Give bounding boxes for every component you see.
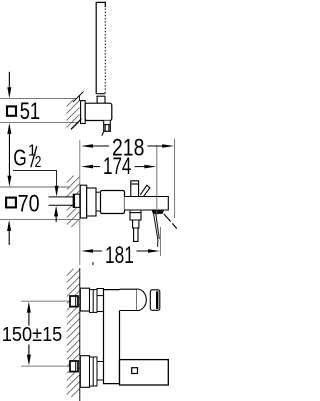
wall line (middle) bbox=[79, 140, 81, 265]
lower connection square bbox=[70, 361, 78, 372]
arrow up bbox=[27, 302, 31, 326]
dimension 181 bbox=[81, 242, 160, 269]
wall break slash at plate bottom bbox=[71, 119, 82, 130]
svg-text:51: 51 bbox=[20, 98, 40, 125]
outlet box below body bbox=[130, 211, 141, 242]
main block (front) bbox=[104, 290, 120, 384]
svg-text:174: 174 bbox=[103, 153, 131, 180]
extension line for 218 bbox=[174, 139, 176, 219]
arrow down to pipe top line bbox=[55, 186, 59, 197]
upper connection axis line bbox=[21, 300, 70, 302]
holder wall plate bbox=[81, 101, 86, 124]
small tick bbox=[92, 262, 94, 265]
mixer escutcheon (side) bbox=[80, 185, 86, 218]
spout tube bbox=[125, 197, 169, 211]
reference line bottom of mixer escutcheon bbox=[0, 219, 79, 221]
supply pipe behind wall bbox=[49, 197, 74, 204]
wall line (bottom) bbox=[79, 268, 81, 401]
arrow down bbox=[27, 345, 31, 366]
main block (side) bbox=[101, 191, 125, 214]
upper connection square bbox=[70, 296, 78, 307]
square symbol 70 bbox=[6, 198, 16, 208]
water stream dashes diagonal bbox=[164, 214, 177, 229]
wall break slash top bbox=[73, 92, 84, 103]
aerator square bbox=[132, 368, 138, 374]
pipe nut at wall bbox=[73, 194, 80, 207]
upper escutcheon bbox=[80, 288, 89, 311]
svg-text:2: 2 bbox=[35, 154, 42, 171]
wall hatching (bottom) bbox=[67, 269, 80, 398]
reference line top of holder plate bbox=[0, 98, 77, 100]
upper connector bbox=[97, 289, 104, 312]
square symbol 51 bbox=[7, 106, 16, 115]
dimension 218 bbox=[81, 134, 174, 161]
mixer body (side) bbox=[87, 188, 96, 216]
arrow up to pipe bottom line + shaft bbox=[54, 206, 58, 222]
svg-text:G: G bbox=[13, 145, 27, 171]
wall line (top section) bbox=[79, 95, 81, 101]
neck (side) bbox=[96, 192, 101, 211]
lever (diagonal, side) bbox=[140, 185, 150, 196]
lower body band bbox=[90, 357, 98, 386]
lever arm (front) bbox=[120, 289, 147, 311]
hand shower handle body bbox=[96, 2, 105, 94]
water stream lines bbox=[154, 214, 160, 247]
lower connection axis line bbox=[21, 365, 70, 367]
holder hose stem bbox=[104, 121, 111, 132]
arrow down to line 98.6 bbox=[7, 72, 11, 99]
hand shower spray face dotted edge bbox=[104, 9, 106, 94]
extension line for 174 bbox=[156, 145, 158, 215]
lower connector bbox=[97, 362, 104, 381]
hose stub tail under stem bbox=[102, 132, 104, 136]
wall hatching (middle) bbox=[67, 176, 80, 228]
wall hatching (top section) bbox=[67, 100, 80, 131]
reference line top of mixer escutcheon bbox=[0, 186, 70, 188]
spout cube (front) bbox=[120, 360, 169, 385]
arrow up to line 122.6 + shaft + arrow down to line 187 bbox=[7, 123, 11, 187]
extension line for 181 bbox=[159, 227, 161, 256]
reference line bottom of holder plate bbox=[0, 122, 79, 124]
lever knob end (front) bbox=[150, 290, 160, 311]
svg-text:181: 181 bbox=[105, 242, 134, 269]
aerator (dark) bbox=[152, 211, 164, 214]
holder body bbox=[85, 103, 112, 120]
leader underline of G 1/2 bending down toward pipe bbox=[13, 171, 57, 188]
upper body band bbox=[90, 290, 98, 313]
dimension 174 bbox=[81, 153, 156, 180]
arrow up to line 219.6 bbox=[7, 220, 11, 245]
svg-text:70: 70 bbox=[18, 190, 40, 217]
handle bottom joint double line bbox=[96, 94, 105, 97]
handle cone into holder bbox=[97, 96, 105, 103]
lower escutcheon bbox=[80, 356, 89, 388]
svg-text:150±15: 150±15 bbox=[2, 323, 63, 346]
diverter knob on top bbox=[131, 181, 139, 197]
